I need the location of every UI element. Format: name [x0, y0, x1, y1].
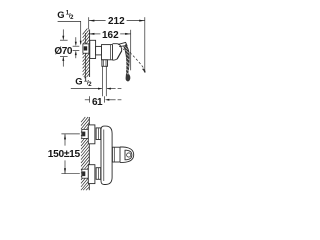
lever base chamfer	[117, 51, 122, 59]
svg-text:162: 162	[102, 30, 119, 41]
escutcheon (top view)	[90, 40, 96, 58]
shower outlet (top view, pointing down)	[102, 60, 108, 67]
wall face line (front)	[88, 117, 90, 190]
wall (top view) hatching	[83, 29, 90, 78]
top escutcheon	[88, 125, 95, 144]
supply thread arrows	[75, 37, 77, 45]
body (front view)	[101, 126, 112, 184]
lever grip (solid)	[124, 44, 131, 82]
cartridge (front)	[112, 147, 120, 162]
cartridge dome cap	[113, 44, 122, 61]
dimension 150+-15	[61, 133, 79, 135]
lever end inner D	[125, 150, 132, 160]
body (top view)	[102, 45, 113, 60]
svg-text:212: 212	[108, 16, 125, 27]
outlet thread arrows	[71, 88, 102, 90]
body joint line	[109, 45, 111, 59]
top inlet: hole + pipe	[82, 129, 89, 138]
svg-text:Ø70: Ø70	[54, 46, 73, 57]
nipple	[96, 46, 102, 55]
bottom union nut	[96, 168, 101, 180]
wall hatching (front)	[81, 117, 89, 190]
bottom inlet: hole + pipe	[82, 169, 89, 178]
supply pipe section (dark)	[84, 46, 88, 50]
dimension 61	[85, 99, 90, 101]
212 extension line	[144, 17, 146, 72]
dimension 162	[89, 33, 101, 35]
lever end knob circle	[127, 153, 131, 157]
lever end (front) outer D	[120, 147, 134, 162]
open-position lever tip	[143, 69, 145, 73]
wall extension line	[88, 17, 90, 29]
dimension 212	[89, 20, 106, 22]
bottom escutcheon	[88, 165, 95, 184]
162 extension line	[130, 30, 132, 71]
lever open position (dashed)	[123, 47, 144, 69]
svg-text:150±15: 150±15	[48, 149, 81, 160]
svg-text:61: 61	[92, 97, 103, 108]
lever neck	[118, 42, 127, 46]
wall (top view) face lines	[84, 33, 86, 77]
outlet pipe lines going down	[102, 66, 104, 96]
top union nut	[96, 128, 101, 140]
G 1/2 leader	[58, 21, 81, 44]
supply hole in wall	[83, 44, 89, 53]
